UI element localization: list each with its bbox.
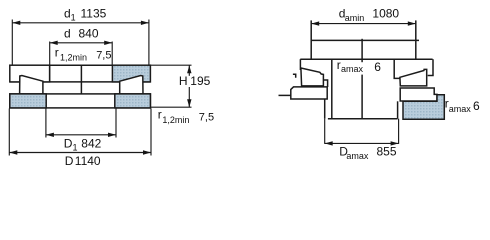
right roller [400, 69, 427, 86]
svg-text:Damax855: Damax855 [339, 145, 397, 162]
bearing shaft washer left edge [299, 59, 301, 70]
dim d1: right extension line [148, 20, 150, 65]
arrow damin left [311, 21, 319, 25]
white gap for center ramax label [335, 62, 381, 74]
svg-text:r1,2min7,5: r1,2min7,5 [55, 46, 112, 63]
arrow d right [104, 41, 112, 45]
dim D: left extension line [8, 109, 10, 156]
left view: shaft washer top edge [10, 64, 151, 66]
shaft left edge [310, 20, 312, 59]
arrow H top [187, 65, 191, 73]
dim Damax: dimension line [325, 142, 399, 144]
svg-text:D1842: D1842 [64, 136, 102, 152]
left view: left roller [20, 76, 43, 96]
left view: shaft washer left section box (white) [10, 65, 50, 82]
dim H: bottom reference line [150, 106, 191, 108]
arrow damin right [408, 21, 416, 25]
left view: housing washer outer rect [10, 94, 151, 108]
bearing shaft washer top edge [300, 58, 432, 60]
housing shoulder blue block [403, 95, 444, 120]
svg-text:damin1080: damin1080 [339, 7, 400, 23]
arrow H bottom [187, 99, 191, 107]
white gap for H label [178, 76, 212, 87]
housing washer right box [400, 88, 437, 101]
left view: right roller [120, 76, 143, 96]
housing bore wall left [324, 99, 326, 119]
left view: shaft washer right section box (shaded) [112, 65, 150, 82]
arrow Damax left [325, 141, 333, 145]
arrow D left [9, 150, 17, 154]
dim d: left extension line [49, 42, 51, 82]
arrow d1 left [12, 21, 20, 25]
arrow D1 right [108, 133, 116, 137]
svg-text:D1140: D1140 [65, 154, 101, 168]
left roller inner step [323, 80, 327, 87]
shaft right edge [415, 20, 417, 58]
dim D1: left extension line [45, 109, 47, 138]
dim D1: right extension line [115, 109, 117, 138]
svg-text:H195: H195 [179, 74, 211, 88]
left roller [301, 68, 324, 86]
left view: housing washer right section box (shaded) [115, 94, 151, 108]
dim H: vertical dimension line [188, 65, 190, 107]
dim D: dimension line [9, 152, 151, 154]
dim d: right extension line [111, 42, 113, 65]
dim d1: left extension line [11, 20, 13, 65]
housing washer left box [291, 87, 327, 99]
dim Damax: left extension [324, 119, 326, 144]
arrow D right [143, 150, 151, 154]
arrow D1 left [46, 133, 54, 137]
svg-text:r1,2min7,5: r1,2min7,5 [158, 107, 214, 125]
dim d1: dimension line [12, 22, 149, 24]
housing bore wall right [397, 101, 399, 118]
arrow Damax right [391, 141, 399, 145]
housing floor [328, 118, 398, 120]
svg-text:d840: d840 [64, 27, 99, 41]
left view: shaft washer bottom line [10, 81, 151, 83]
dim d: dimension line [50, 42, 112, 44]
left view: centerline [80, 65, 82, 108]
left washer outer lip stub [293, 74, 296, 78]
shaft top edge [311, 39, 419, 41]
svg-text:ramax6: ramax6 [337, 58, 382, 74]
dim damin: dimension line [311, 23, 416, 25]
svg-text:ramax6: ramax6 [445, 96, 480, 114]
housing shoulder line left [279, 94, 291, 96]
dim D: right extension line [150, 109, 152, 156]
bore edge left (central box left) [331, 59, 333, 118]
centerline [361, 39, 363, 119]
bore edge right upper [394, 59, 400, 78]
arrow d left [50, 41, 58, 45]
dim D1: dimension line [46, 134, 116, 136]
svg-text:d11135: d11135 [64, 6, 107, 22]
dim H: top reference line [150, 64, 191, 66]
arrow d1 right [141, 21, 149, 25]
left view: housing washer left section box (shaded) [10, 94, 46, 108]
bearing shaft washer right edge [428, 59, 433, 75]
dim Damax: right extension [398, 119, 400, 144]
